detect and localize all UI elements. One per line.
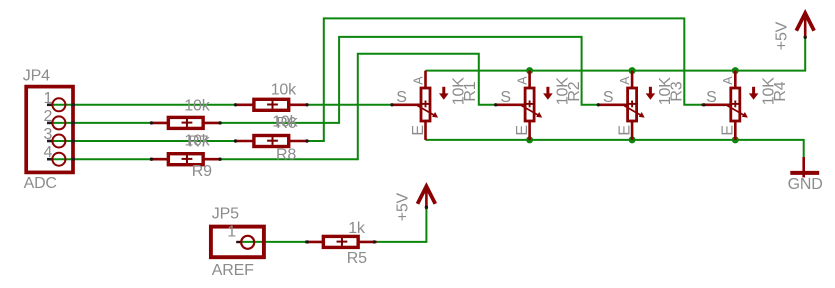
trimmer R4 adjust arrow	[752, 87, 755, 95]
svg-text:2: 2	[43, 108, 52, 125]
resistor R8 body	[254, 136, 289, 147]
svg-text:10k: 10k	[184, 132, 210, 149]
connector JP4 pin 1 pad circle	[52, 98, 65, 111]
trimmer R4 pin S lead	[701, 104, 730, 107]
trimmer R4 wiper arrow	[727, 106, 744, 116]
trimmer R4 origin cross	[730, 103, 741, 105]
svg-text:S: S	[603, 89, 613, 106]
trimmer R3 origin cross	[627, 103, 638, 105]
svg-text:10k: 10k	[184, 98, 210, 115]
wire net R8 up-over to R4 wiper S	[307, 18, 704, 141]
svg-text:4: 4	[43, 144, 52, 161]
wire-to-pin joint	[494, 103, 497, 106]
svg-text:ADC: ADC	[24, 175, 57, 192]
resistor R9 body	[168, 154, 203, 165]
connector JP4 pin 2 pad circle	[52, 116, 65, 129]
svg-text:R5: R5	[347, 250, 367, 267]
svg-text:JP5: JP5	[212, 206, 239, 223]
resistor R8 origin cross	[267, 140, 278, 142]
connector JP4 pin 3 line	[47, 140, 53, 143]
svg-text:10k: 10k	[272, 114, 298, 131]
wire-to-pin joint	[305, 103, 308, 106]
trimmer R1 pin A	[424, 71, 427, 89]
wire-to-pin joint	[150, 121, 153, 124]
connector JP4 pin 2 line	[47, 122, 53, 125]
trimmer R1 adjust arrow	[442, 87, 445, 95]
svg-text:A: A	[411, 76, 425, 85]
wire-to-pin joint	[234, 103, 237, 106]
trimmer R2 pin A	[528, 71, 531, 89]
trimmer R3 adjust arrow	[649, 87, 652, 95]
connector JP4 pin 3 pad circle	[52, 135, 65, 148]
trimmer R3 pin S lead	[598, 104, 627, 107]
trimmer R2 wiper arrow	[522, 106, 539, 116]
resistor R6 leads	[236, 104, 255, 107]
wire net R7 up-over to R3 wiper S	[220, 37, 598, 123]
wire-to-pin joint	[390, 103, 393, 106]
trimmer R4 pin E	[734, 121, 737, 140]
wire-to-pin joint	[218, 158, 221, 161]
connector JP4 pin 1 wire-over-box crossing	[71, 103, 75, 106]
svg-text:3: 3	[43, 126, 52, 143]
connector JP4 pin 4 wire-over-box crossing	[71, 158, 75, 161]
+5V supply symbol arrow	[425, 187, 428, 210]
svg-text:A: A	[721, 76, 735, 85]
trimmer R2 adjust arrow	[546, 87, 549, 95]
connector JP4 pin 1 line	[47, 104, 53, 107]
svg-text:E: E	[410, 125, 427, 135]
+5V supply symbol arrow	[804, 14, 807, 37]
svg-text:R8: R8	[276, 147, 296, 164]
svg-text:R9: R9	[192, 163, 212, 180]
svg-text:R2: R2	[566, 81, 583, 101]
svg-text:+5V: +5V	[395, 192, 412, 221]
junction dot R4 E pin on GND bus	[732, 136, 739, 143]
wire-to-pin joint	[597, 103, 600, 106]
svg-text:1: 1	[227, 224, 236, 241]
svg-text:A: A	[516, 76, 530, 85]
trimmer R1 pin S lead	[392, 104, 421, 107]
svg-text:R3: R3	[669, 81, 686, 101]
resistor R7 origin cross	[182, 122, 193, 124]
trimmer R2 pin E	[528, 121, 531, 140]
trimmer R2 pin S lead	[496, 104, 525, 107]
junction dot R4 A pin on +5V bus	[732, 67, 739, 74]
trimmer R4 pin A	[734, 71, 737, 89]
connector JP5 box	[211, 227, 264, 258]
svg-text:+5V: +5V	[774, 21, 791, 50]
svg-text:E: E	[720, 125, 737, 135]
junction dot R2 E pin on GND bus	[526, 136, 533, 143]
wire net +5V bus (A pins)	[426, 37, 806, 71]
svg-text:R1: R1	[462, 81, 479, 101]
resistor R5 origin cross	[337, 241, 348, 243]
svg-text:GND: GND	[788, 176, 823, 193]
trimmer R1 body	[421, 88, 430, 121]
wire-to-pin joint	[373, 240, 376, 243]
wire-to-pin joint	[804, 36, 807, 39]
connector JP4 pin 4 line	[47, 158, 53, 161]
connector JP4 box	[26, 87, 73, 173]
wire net R9 up-over to R2 wiper S	[220, 54, 496, 160]
junction dot R2 A pin on +5V bus	[526, 67, 533, 74]
wire net R5 to +5V	[374, 207, 426, 242]
connector JP4 pin 3 wire-over-box crossing	[71, 140, 75, 143]
svg-text:R4: R4	[772, 81, 789, 101]
ground symbol bar	[790, 171, 819, 175]
trimmer R2 origin cross	[524, 103, 535, 105]
trimmer R3 pin A	[631, 71, 634, 89]
ground symbol stem	[802, 157, 805, 177]
resistor R6 body	[254, 99, 289, 110]
wire net AREF: JP5 pin1 to R5	[242, 241, 307, 243]
wire net R6 to R1 wiper S	[307, 104, 392, 106]
wire-to-pin joint	[702, 103, 705, 106]
junction dot R3 E pin on GND bus	[629, 136, 636, 143]
wire-to-pin joint	[306, 240, 309, 243]
resistor R7 body	[168, 117, 203, 128]
svg-text:S: S	[396, 89, 406, 106]
svg-text:1k: 1k	[348, 220, 366, 237]
wire-to-pin joint	[425, 206, 428, 209]
wire net ADC4: JP4 pin4 to R9	[53, 158, 152, 160]
svg-text:JP4: JP4	[23, 67, 50, 84]
svg-text:10k: 10k	[271, 81, 297, 98]
connector JP4 pin 4 pad circle	[52, 153, 65, 166]
wire-to-pin joint	[305, 139, 308, 142]
svg-text:AREF: AREF	[212, 262, 254, 279]
trimmer R1 wiper arrow	[418, 106, 435, 116]
wire-to-pin joint	[218, 121, 221, 124]
trimmer R1 pin E	[424, 121, 427, 140]
junction dot R3 A pin on +5V bus	[629, 67, 636, 74]
trimmer R3 pin E	[631, 121, 634, 140]
resistor R9 origin cross	[182, 158, 193, 160]
svg-text:S: S	[500, 89, 510, 106]
connector JP5 pin 1 pad circle	[241, 236, 254, 249]
svg-text:E: E	[617, 125, 634, 135]
resistor R7 leads	[150, 122, 169, 125]
wire-to-pin joint	[150, 158, 153, 161]
trimmer R3 wiper arrow	[624, 106, 641, 116]
resistor R8 leads	[236, 140, 255, 143]
svg-text:1: 1	[43, 90, 52, 107]
trimmer R1 origin cross	[420, 103, 431, 105]
resistor R5 body	[323, 236, 358, 247]
wire net GND bus (E pins)	[426, 140, 804, 158]
svg-text:A: A	[618, 76, 632, 85]
trimmer R2 body	[525, 88, 534, 121]
wire-to-pin joint	[234, 139, 237, 142]
wire net ADC1: JP4 pin1 to R6	[53, 104, 236, 106]
resistor R6 origin cross	[267, 104, 278, 106]
trimmer R3 body	[628, 88, 637, 121]
wire net ADC2: JP4 pin2 to R7	[53, 122, 152, 124]
trimmer R4 body	[731, 88, 740, 121]
wire net ADC3: JP4 pin3 to R8	[53, 140, 236, 142]
resistor R5 leads	[305, 241, 324, 244]
svg-text:S: S	[706, 89, 716, 106]
resistor R9 leads	[150, 158, 169, 161]
svg-text:E: E	[514, 125, 531, 135]
connector JP5 pin 1 line	[236, 241, 241, 243]
connector JP4 pin 2 wire-over-box crossing	[71, 122, 75, 125]
